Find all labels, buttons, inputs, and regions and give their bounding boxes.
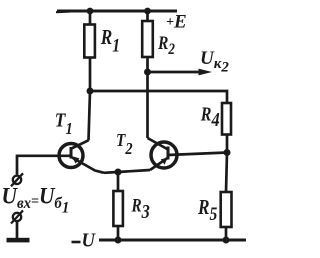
wire: R5 bottom lead — [225, 227, 228, 240]
resistor R1 — [84, 25, 95, 58]
wire: terminal 2 to ground — [16, 221, 19, 239]
svg-text:R5: R5 — [197, 197, 217, 225]
wire: R1 bottom lead down to collector node — [89, 58, 92, 92]
svg-text:R3: R3 — [131, 195, 150, 222]
resistor R3 — [113, 191, 123, 226]
wire: output arrow line Uk2 — [148, 71, 202, 74]
arrowhead: Uk2 — [199, 69, 213, 76]
wire: T2 base lead — [168, 153, 227, 156]
wire: T1 base lead and input drop — [17, 156, 71, 175]
svg-text:R1: R1 — [100, 26, 120, 55]
node: R1 top junction — [87, 8, 94, 15]
wire: R3 top lead — [117, 172, 120, 191]
transistor T2 — [151, 142, 177, 168]
wire: collector node to R4 top — [90, 91, 227, 104]
wire: R2 top lead — [146, 11, 149, 22]
wire: T2 collector line — [146, 72, 149, 138]
ground symbol — [7, 238, 30, 243]
wire: R3 bottom lead — [117, 226, 120, 240]
wire: R5 top lead — [226, 153, 227, 193]
svg-text:+E: +E — [166, 12, 187, 33]
node: R4-R5 junction (T2 base) — [224, 149, 231, 156]
wire: -U bottom rail — [99, 239, 246, 242]
resistor R4 — [222, 103, 231, 135]
arrowhead: T2 emitter (points to bar) — [161, 158, 168, 165]
svg-text:T1: T1 — [55, 109, 73, 138]
node: emitter bus junction — [115, 169, 122, 176]
resistor R2 — [142, 21, 153, 57]
node: T1 collector junction — [87, 88, 94, 95]
wire: T1 collector to node — [89, 91, 91, 141]
wire: +E top rail — [57, 10, 177, 13]
node: R3 bottom junction — [115, 237, 122, 244]
svg-text:T2: T2 — [116, 130, 133, 158]
resistor R5 — [221, 192, 232, 227]
wire: R4 bottom lead — [226, 135, 229, 153]
wire: emitter bus — [104, 170, 150, 173]
wire: T2 collector diagonal — [148, 138, 169, 150]
node: output junction — [144, 69, 151, 76]
node: R5 bottom junction — [223, 237, 230, 244]
terminal: input 1 — [13, 176, 21, 184]
wire: R1 top lead — [89, 11, 92, 25]
svg-text:R4: R4 — [200, 103, 220, 130]
node: R2 top junction — [144, 8, 151, 15]
wire: R2 bottom lead — [146, 57, 149, 72]
svg-text:R2: R2 — [157, 32, 175, 58]
transistor T1 — [59, 144, 83, 168]
svg-text:Uвх=Uб1: Uвх=Uб1 — [2, 183, 70, 217]
svg-text:U: U — [82, 230, 96, 252]
label -U — [72, 241, 81, 244]
arrowhead: T1 emitter (points to bar) — [72, 156, 80, 164]
terminal: input 2 — [13, 213, 21, 221]
